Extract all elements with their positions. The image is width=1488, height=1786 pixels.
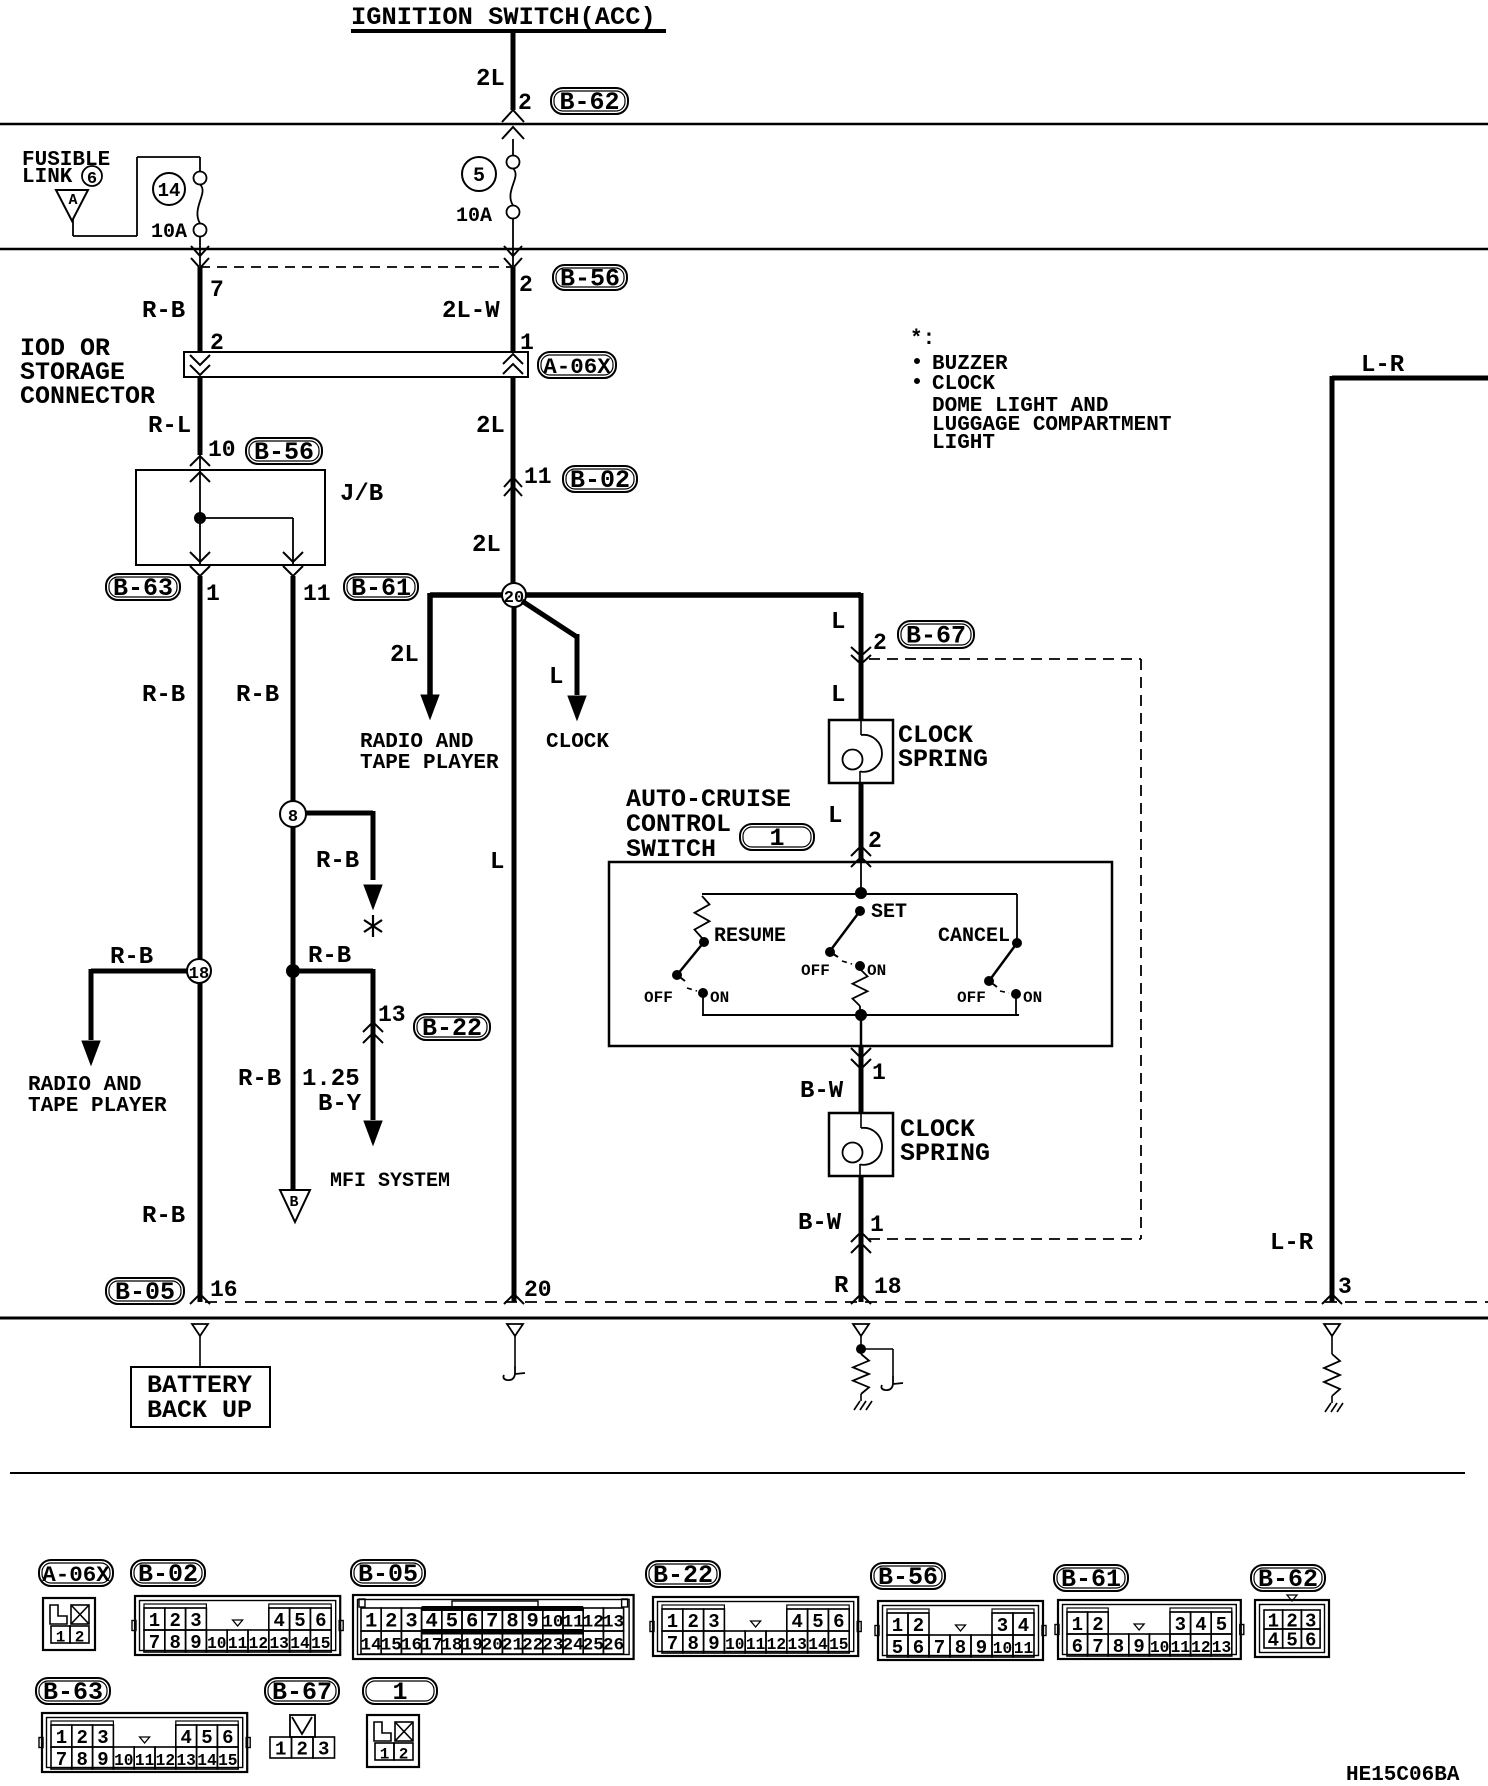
wire label R-L — [148, 413, 191, 440]
svg-text:B-02: B-02 — [138, 1560, 198, 1589]
svg-text:OFF: OFF — [957, 989, 986, 1007]
svg-text:11: 11 — [746, 1636, 766, 1654]
svg-text:9: 9 — [708, 1633, 719, 1655]
svg-text:CLOCK: CLOCK — [546, 731, 609, 754]
wire double chevron at B-02 — [504, 477, 522, 496]
svg-text:10: 10 — [1150, 1639, 1169, 1657]
svg-text:20: 20 — [524, 1277, 552, 1303]
dashed harness box bottom edge — [869, 1238, 1141, 1240]
terminal triangle 18 — [853, 1324, 869, 1336]
svg-text:1: 1 — [380, 1746, 390, 1764]
terminal triangle 16 — [192, 1324, 208, 1336]
svg-text:TAPE PLAYER: TAPE PLAYER — [360, 752, 499, 775]
svg-text:3: 3 — [318, 1739, 329, 1761]
svg-text:R-B: R-B — [316, 848, 359, 875]
wire label R-B (second wire) — [236, 682, 279, 709]
svg-text:5: 5 — [473, 165, 485, 188]
clock caption — [546, 731, 609, 754]
svg-text:6: 6 — [315, 1610, 326, 1632]
svg-text:4: 4 — [791, 1611, 802, 1633]
svg-text:L-R: L-R — [1270, 1230, 1314, 1257]
svg-text:IGNITION SWITCH(ACC): IGNITION SWITCH(ACC) — [351, 3, 656, 32]
svg-text:16: 16 — [401, 1636, 422, 1656]
svg-text:1: 1 — [667, 1611, 678, 1633]
svg-text:3: 3 — [190, 1610, 201, 1632]
wire label R-B (left) — [142, 682, 185, 709]
cancel branch wire — [1016, 894, 1018, 941]
svg-text:25: 25 — [583, 1636, 604, 1656]
wire R-B B-61 down — [291, 576, 296, 1190]
svg-text:13: 13 — [603, 1613, 624, 1633]
fuse 14 output chevrons — [191, 236, 209, 268]
svg-text:R: R — [834, 1273, 849, 1300]
svg-text:B-63: B-63 — [43, 1678, 103, 1707]
terminal triangle 3 — [1324, 1324, 1340, 1336]
wire chevron below bus 1 — [502, 127, 524, 156]
pin 18 (bottom) — [874, 1274, 902, 1300]
connector label B-56 at J/B — [246, 438, 322, 467]
dashed harness box right edge — [1140, 659, 1142, 1239]
connector pinout label B-02 — [131, 1560, 205, 1589]
svg-text:22: 22 — [522, 1636, 543, 1656]
svg-text:12: 12 — [156, 1752, 175, 1770]
svg-text:B-W: B-W — [800, 1078, 844, 1105]
svg-text:A-06X: A-06X — [543, 354, 611, 380]
svg-text:2: 2 — [385, 1611, 397, 1634]
wire label L (middle low) — [490, 849, 504, 876]
chassis ground 3 — [1325, 1403, 1343, 1412]
svg-text:J/B: J/B — [340, 481, 383, 508]
wire end chevron 18 — [851, 1294, 871, 1304]
connector label B-22 — [414, 1014, 490, 1043]
svg-text:BACK UP: BACK UP — [147, 1396, 252, 1425]
svg-text:3: 3 — [405, 1611, 417, 1634]
svg-text:A: A — [68, 192, 77, 209]
wire label L (above clock spring) — [831, 682, 845, 709]
connector pinout B-67 (pins 1-3) — [270, 1715, 335, 1761]
svg-text:2: 2 — [868, 828, 882, 854]
wire label B-W (upper) — [800, 1078, 844, 1105]
svg-text:23: 23 — [542, 1636, 563, 1656]
noise filter resistor 18 — [853, 1354, 869, 1401]
svg-text:7: 7 — [56, 1749, 67, 1771]
junction circle 18 node — [187, 959, 211, 984]
svg-text:L: L — [831, 682, 845, 709]
connector pinout B-63 (pins 1-15) — [39, 1713, 250, 1772]
svg-text:2: 2 — [75, 1629, 85, 1647]
resume resistor — [695, 896, 710, 938]
connector label B-67 — [898, 621, 974, 651]
svg-text:14: 14 — [197, 1752, 217, 1770]
svg-text:13: 13 — [176, 1752, 195, 1770]
svg-text:14: 14 — [360, 1636, 382, 1656]
svg-text:8: 8 — [687, 1633, 698, 1655]
connector pinout label B-63 — [36, 1678, 110, 1707]
svg-text:7: 7 — [667, 1633, 678, 1655]
svg-text:L: L — [549, 664, 563, 691]
horizontal bus line 1 — [0, 123, 1488, 126]
svg-text:RADIO AND: RADIO AND — [28, 1074, 141, 1097]
wire 2L-W fuse5 to IOD connector — [511, 267, 516, 352]
svg-text:B-62: B-62 — [559, 88, 619, 117]
J/B exit chevrons left — [190, 552, 210, 576]
pin 10 (B-56) — [208, 437, 236, 463]
connector pinout B-22 (pins 1-15) — [650, 1597, 861, 1656]
svg-text:11: 11 — [1171, 1639, 1191, 1657]
svg-text:B-56: B-56 — [560, 265, 620, 294]
svg-text:8: 8 — [955, 1637, 966, 1659]
wire label R-B — [142, 298, 185, 325]
branch wire R-B to buzzer etc — [306, 811, 382, 909]
svg-text:2: 2 — [519, 272, 533, 298]
pin 11 (B-61) — [303, 581, 331, 607]
label OFF (set) — [801, 962, 830, 980]
pin 20 (bottom) — [524, 1277, 552, 1303]
clock spring 2 caption — [900, 1115, 990, 1168]
svg-text:L: L — [828, 803, 842, 830]
svg-text:13: 13 — [269, 1635, 288, 1653]
junction circle 8 — [280, 801, 306, 827]
wire label R-B (branch 8) — [316, 848, 359, 875]
svg-text:2: 2 — [518, 90, 532, 116]
svg-text:B-63: B-63 — [113, 574, 173, 603]
svg-text:1: 1 — [56, 1629, 66, 1647]
svg-text:CONNECTOR: CONNECTOR — [20, 382, 155, 411]
svg-text:7: 7 — [149, 1632, 160, 1654]
svg-text:B: B — [289, 1194, 298, 1211]
svg-text:14: 14 — [290, 1635, 310, 1653]
connector label B-02 — [563, 466, 637, 495]
branch wire L to clock — [522, 601, 586, 720]
svg-text:6: 6 — [1305, 1630, 1316, 1652]
asterisk mark — [364, 915, 382, 937]
fuse 5 (10A) — [507, 156, 520, 219]
svg-text:21: 21 — [502, 1636, 523, 1656]
connector pinout label B-56 — [871, 1563, 945, 1592]
svg-text:LINK: LINK — [22, 166, 73, 189]
connector pinout label B-67 — [265, 1678, 339, 1707]
svg-text:7: 7 — [210, 277, 224, 303]
svg-text:1.25: 1.25 — [302, 1066, 360, 1093]
clock spring 1 caption — [898, 721, 988, 774]
wire from triangle A to fuse 14 — [73, 157, 200, 236]
svg-text:B-67: B-67 — [272, 1678, 332, 1707]
svg-text:RADIO AND: RADIO AND — [360, 731, 473, 754]
switch output wire — [860, 1015, 863, 1046]
connector pinout A-06X — [43, 1598, 95, 1650]
label ON (set) — [867, 962, 886, 980]
svg-text:10: 10 — [208, 437, 236, 463]
svg-text:5: 5 — [812, 1611, 823, 1633]
label RESUME — [714, 925, 786, 948]
branch wire R-B to radio 2 — [82, 969, 187, 1065]
note clock — [915, 373, 996, 396]
connector label B-61 — [344, 574, 418, 603]
svg-text:1: 1 — [1072, 1614, 1083, 1636]
svg-text:4: 4 — [1018, 1615, 1029, 1637]
branch wire to MFI system — [293, 969, 382, 1145]
svg-text:1: 1 — [870, 1212, 884, 1238]
svg-text:8: 8 — [288, 808, 298, 827]
connector pinout B-05 (pins 1-26) — [353, 1595, 634, 1659]
svg-text:1: 1 — [275, 1739, 286, 1761]
off-page triangle A — [56, 190, 88, 221]
svg-text:10: 10 — [993, 1640, 1012, 1658]
IOD chevrons left (down) — [190, 355, 210, 375]
svg-text:9: 9 — [190, 1632, 201, 1654]
label OFF (cancel) — [957, 989, 986, 1007]
cancel switch blade — [985, 939, 1022, 988]
svg-text:14: 14 — [158, 180, 181, 202]
wire end chevron at J/B — [190, 456, 210, 466]
svg-text:2: 2 — [297, 1739, 308, 1761]
svg-text:HE15C06BA: HE15C06BA — [1346, 1764, 1460, 1786]
svg-text:18: 18 — [874, 1274, 902, 1300]
svg-text:2: 2 — [687, 1611, 698, 1633]
svg-text:6: 6 — [1072, 1636, 1083, 1658]
J/B internal branch wire — [200, 518, 293, 565]
wire end chevron 3 — [1322, 1294, 1342, 1304]
wire size label 1.25 — [302, 1066, 360, 1093]
battery back up box — [131, 1367, 270, 1427]
svg-text:1: 1 — [872, 1060, 886, 1086]
svg-text:B-05: B-05 — [115, 1278, 175, 1307]
svg-text:B-22: B-22 — [653, 1561, 713, 1590]
svg-text:6: 6 — [87, 170, 97, 189]
pin 7 — [210, 277, 224, 303]
pin 1 (IOD) — [520, 330, 534, 356]
svg-text:3: 3 — [1338, 1274, 1352, 1300]
svg-text:CLOCK: CLOCK — [932, 373, 995, 396]
svg-text:7: 7 — [934, 1637, 945, 1659]
chassis ground 18 — [854, 1401, 872, 1410]
IOD / storage connector box — [184, 352, 528, 377]
IOD or storage connector caption — [20, 334, 155, 411]
set switch blade — [826, 907, 865, 958]
svg-text:B-56: B-56 — [254, 438, 314, 467]
svg-text:9: 9 — [1133, 1636, 1144, 1658]
fusible link 6 label — [22, 149, 110, 189]
diagram code HE15C06BA — [1346, 1764, 1460, 1786]
svg-text:3: 3 — [708, 1611, 719, 1633]
note asterisk — [910, 328, 935, 351]
cancel to bottom rail — [1015, 995, 1017, 1015]
wire R-B fuse14 to IOD connector — [198, 267, 203, 352]
set switch contacts — [842, 961, 865, 971]
svg-text:13: 13 — [1212, 1639, 1231, 1657]
svg-text:10A: 10A — [456, 205, 492, 228]
radio and tape player caption (top) — [360, 731, 499, 775]
J/B exit chevrons right — [283, 552, 303, 576]
svg-text:5: 5 — [1286, 1630, 1297, 1652]
wire label L (to B-67) — [831, 609, 845, 636]
svg-text:2: 2 — [76, 1727, 87, 1749]
pin 2 (B-62) — [518, 90, 532, 116]
svg-text:9: 9 — [97, 1749, 108, 1771]
svg-text:R-B: R-B — [142, 298, 185, 325]
horizontal bus line 2 — [0, 248, 1488, 251]
fuse rating circle 5 — [462, 157, 496, 191]
svg-text:B-61: B-61 — [1061, 1565, 1121, 1594]
auto-cruise switch box — [609, 862, 1112, 1046]
switch bottom rail — [702, 1010, 1019, 1021]
svg-text:5: 5 — [294, 1610, 305, 1632]
svg-text:R-B: R-B — [238, 1066, 281, 1093]
wire double chevron at B-67 — [851, 647, 871, 664]
svg-text:1: 1 — [365, 1611, 377, 1634]
svg-text:26: 26 — [603, 1636, 624, 1656]
svg-text:11: 11 — [135, 1752, 155, 1770]
thick branch bus at junction 20 — [430, 592, 860, 598]
wire label 2L (below IOD) — [476, 413, 505, 440]
wire double chevron at cruise switch — [851, 846, 871, 867]
dashed tie line between fuse outputs — [200, 266, 513, 268]
noise filter resistor 3 — [1324, 1336, 1340, 1403]
svg-text:B-67: B-67 — [906, 622, 966, 651]
wire label 2L-W — [442, 298, 500, 325]
svg-text:11: 11 — [1014, 1640, 1034, 1658]
svg-text:12: 12 — [767, 1636, 786, 1654]
svg-text:LIGHT: LIGHT — [932, 432, 995, 455]
wire L junction20 to clock spring — [858, 593, 861, 720]
label ON (resume) — [710, 989, 729, 1007]
note light — [932, 432, 995, 455]
branch wire 2L to radio — [421, 593, 439, 719]
wire label 2L (above junction 20) — [472, 532, 501, 559]
pin 1 (clock spring 2) — [870, 1212, 884, 1238]
wire L junction 20 to bus — [512, 607, 517, 1302]
svg-text:B-61: B-61 — [351, 574, 411, 603]
wire end chevron 16 — [190, 1294, 210, 1304]
svg-text:12: 12 — [1191, 1639, 1210, 1657]
svg-text:B-56: B-56 — [878, 1563, 938, 1592]
svg-text:12: 12 — [583, 1613, 604, 1633]
connector pinout B-61 (pins 1-13) — [1055, 1600, 1244, 1659]
wire R-B B-63 to bus — [198, 576, 203, 1302]
svg-text:1: 1 — [392, 1678, 407, 1707]
wire double chevron below switch — [851, 1048, 871, 1069]
label OFF (resume) — [644, 989, 673, 1007]
svg-text:A-06X: A-06X — [42, 1562, 110, 1588]
svg-text:16: 16 — [210, 1277, 238, 1303]
wire R-L IOD to J/B — [198, 377, 203, 470]
svg-text:SET: SET — [871, 901, 907, 924]
svg-text:17: 17 — [421, 1636, 442, 1656]
wire label L (clock branch) — [549, 664, 563, 691]
cancel switch contacts — [1000, 990, 1021, 999]
svg-text:2L: 2L — [390, 642, 419, 669]
svg-text:11: 11 — [303, 581, 331, 607]
wire 2L IOD to junction 20 — [511, 377, 516, 583]
svg-text:18: 18 — [189, 965, 209, 984]
connector pinout B-02 (pins 1-15) — [132, 1596, 343, 1655]
pin 2 (IOD) — [210, 330, 224, 356]
svg-text:L: L — [831, 609, 845, 636]
svg-text:15: 15 — [381, 1636, 402, 1656]
svg-text:B-05: B-05 — [358, 1560, 418, 1589]
junction block J/B box — [136, 470, 383, 565]
svg-text:5: 5 — [201, 1727, 212, 1749]
pin 13 (B-22) — [378, 1002, 406, 1028]
svg-text:9: 9 — [976, 1637, 987, 1659]
fuse rating circle 14 — [153, 173, 185, 205]
svg-text:14: 14 — [808, 1636, 828, 1654]
note dome light — [932, 395, 1108, 418]
connector pinout label B-61 — [1054, 1565, 1128, 1594]
svg-text:2: 2 — [169, 1610, 180, 1632]
fuse 5 rating 10A — [456, 205, 492, 228]
resume switch blade — [673, 938, 709, 982]
connector pinout label B-05 — [351, 1560, 425, 1589]
connector label B-05 — [106, 1278, 184, 1307]
svg-text:4: 4 — [1268, 1630, 1279, 1652]
svg-text:1: 1 — [149, 1610, 160, 1632]
clock spring 1 — [829, 720, 893, 783]
svg-text:6: 6 — [222, 1727, 233, 1749]
svg-text:R-B: R-B — [308, 943, 351, 970]
svg-text:3: 3 — [1175, 1614, 1186, 1636]
label CANCEL — [938, 925, 1010, 948]
svg-text:10A: 10A — [151, 221, 187, 244]
pin 1 (below switch) — [872, 1060, 886, 1086]
wire B-W switch to clock spring 2 — [859, 1046, 864, 1113]
connector pinout label A-06X — [39, 1560, 113, 1588]
J/B internal junction — [195, 513, 206, 524]
svg-text:7: 7 — [1092, 1636, 1103, 1658]
svg-text:11: 11 — [228, 1635, 248, 1653]
resume switch contacts — [687, 988, 708, 998]
label SET — [871, 901, 907, 924]
wire label R-B (lowest) — [238, 1066, 281, 1093]
connector pinout B-56 (pins 1-11) — [875, 1601, 1046, 1660]
svg-text:15: 15 — [311, 1635, 330, 1653]
svg-text:B-02: B-02 — [570, 466, 630, 495]
terminal triangle 20 — [507, 1324, 523, 1336]
switch input wire — [860, 862, 862, 893]
svg-text:24: 24 — [562, 1636, 584, 1656]
set resistor — [853, 969, 868, 1015]
pin 2 (cruise switch) — [868, 828, 882, 854]
ground triangle B — [280, 1190, 310, 1222]
connector pinout label 1 — [363, 1678, 437, 1707]
clock spring 2 — [829, 1113, 893, 1176]
auto-cruise control switch caption — [626, 785, 791, 864]
svg-text:3: 3 — [97, 1727, 108, 1749]
wire label R-B (above junction dot) — [308, 943, 351, 970]
svg-text:2: 2 — [399, 1746, 409, 1764]
svg-text:2: 2 — [1092, 1614, 1103, 1636]
svg-text:5: 5 — [892, 1637, 903, 1659]
svg-text:1: 1 — [769, 824, 784, 853]
branch pigtail 18 — [861, 1349, 903, 1390]
wire label L-R (top) — [1361, 352, 1405, 379]
fuse 5 output chevrons — [504, 218, 522, 268]
wire label 2L (radio branch) — [390, 642, 419, 669]
svg-text:2: 2 — [873, 630, 887, 656]
connector label A-06X — [538, 352, 616, 380]
wire to battery backup — [199, 1336, 201, 1367]
wire label L-R (bottom) — [1270, 1230, 1314, 1257]
wire B-W clock spring 2 down — [859, 1176, 864, 1302]
connector pinout B-62 (pins 1-6) — [1255, 1595, 1329, 1657]
wire L clock spring to cruise switch — [859, 783, 864, 862]
svg-text:1: 1 — [892, 1615, 903, 1637]
svg-text:2: 2 — [913, 1615, 924, 1637]
svg-text:4: 4 — [1195, 1614, 1206, 1636]
svg-text:B-Y: B-Y — [318, 1091, 362, 1118]
svg-text:3: 3 — [997, 1615, 1008, 1637]
svg-text:L: L — [490, 849, 504, 876]
